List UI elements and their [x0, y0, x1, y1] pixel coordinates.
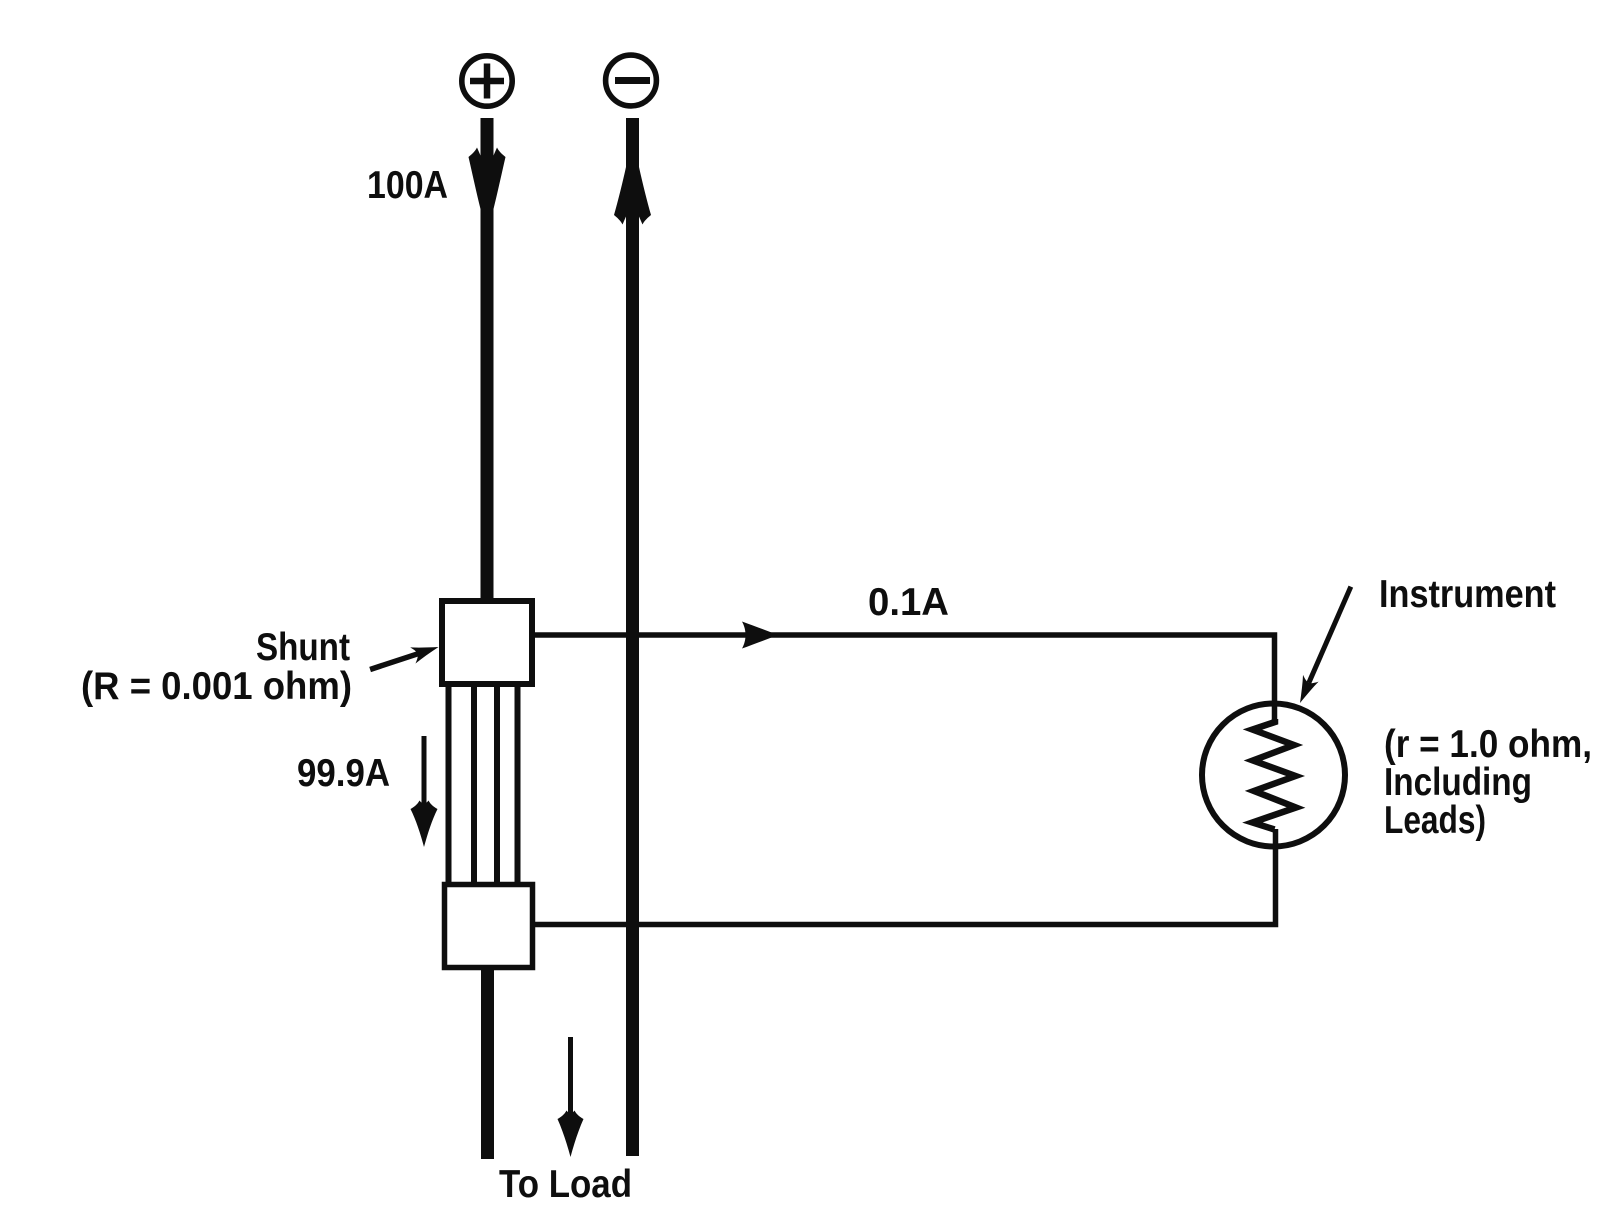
resistor zigzag inside meter [1253, 719, 1297, 830]
svg-text:(R = 0.001 ohm): (R = 0.001 ohm) [81, 665, 352, 708]
arrow instrument pointer [1292, 583, 1358, 706]
shunt bar 1 [446, 684, 452, 885]
arrowhead 0.1A right [742, 622, 778, 649]
svg-text:Instrument: Instrument [1379, 573, 1556, 616]
svg-text:0.1A: 0.1A [868, 581, 949, 624]
shunt bar 2 [471, 684, 477, 885]
wire positive feeder [481, 118, 494, 600]
wire instrument top [535, 635, 1275, 722]
arrow 99.9A down [422, 736, 427, 818]
arrow shunt pointer [367, 639, 441, 678]
plus terminal [462, 56, 512, 106]
shunt top block [442, 601, 532, 684]
minus terminal [606, 55, 657, 106]
svg-text:To Load: To Load [499, 1163, 632, 1206]
svg-text:(r = 1.0 ohm,: (r = 1.0 ohm, [1384, 723, 1592, 766]
svg-text:99.9A: 99.9A [297, 752, 390, 795]
svg-text:Shunt: Shunt [256, 626, 350, 669]
wire positive to load [481, 968, 494, 1159]
instrument meter circle U1 [1202, 704, 1345, 847]
arrow to-load down [568, 1037, 573, 1128]
shunt bottom block [445, 885, 533, 968]
svg-text:Including: Including [1384, 761, 1532, 804]
shunt bar 4 [515, 684, 521, 885]
svg-text:100A: 100A [367, 164, 448, 207]
wire instrument bottom [535, 829, 1276, 925]
shunt bar 3 [494, 684, 500, 885]
arrowhead minus line up [614, 167, 651, 225]
arrowhead 100A down [469, 148, 506, 210]
svg-text:Leads): Leads) [1384, 799, 1486, 842]
wire negative return [626, 118, 639, 1156]
